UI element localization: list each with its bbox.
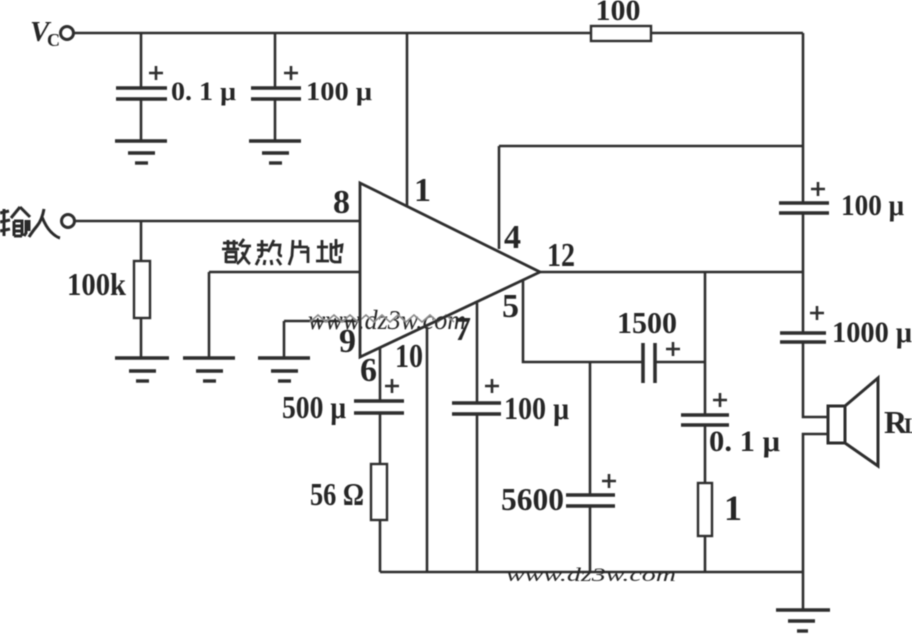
svg-text:1500: 1500 bbox=[617, 305, 677, 340]
capacitor 1500 bbox=[617, 305, 680, 383]
wire pin 10 bbox=[426, 327, 429, 572]
svg-text:5600: 5600 bbox=[501, 481, 564, 517]
wire bottom bus bbox=[380, 571, 803, 574]
resistor 56ohm bbox=[310, 464, 387, 520]
svg-text:L: L bbox=[904, 413, 912, 438]
svg-text:500 μ: 500 μ bbox=[282, 389, 346, 425]
ground (under 0.1u) bbox=[115, 141, 167, 163]
wire output branch drop bbox=[704, 272, 707, 414]
wire pin 9 bbox=[284, 320, 360, 323]
wire pin 6 upper bbox=[379, 348, 382, 402]
watermark www.dz3w.com bbox=[308, 305, 466, 335]
ground (under 100u) bbox=[249, 141, 301, 163]
wire pin 7 upper bbox=[476, 303, 479, 402]
wire 100k to ground bbox=[140, 318, 143, 357]
resistor 1 bbox=[698, 483, 742, 536]
wire pin 7 lower bbox=[476, 414, 479, 572]
svg-text:9: 9 bbox=[339, 323, 356, 360]
wire resistor 1 to bus bbox=[704, 536, 707, 572]
svg-text:0. 1 μ: 0. 1 μ bbox=[171, 77, 236, 106]
ground (pin 9) bbox=[258, 358, 310, 381]
wire 500u to 56ohm bbox=[379, 414, 382, 464]
svg-text:7: 7 bbox=[454, 311, 471, 348]
svg-text:1: 1 bbox=[724, 488, 742, 528]
wire right rail to speaker bbox=[803, 342, 828, 417]
speaker RL bbox=[828, 378, 912, 466]
svg-text:100 μ: 100 μ bbox=[841, 189, 904, 222]
svg-text:100 μ: 100 μ bbox=[306, 77, 372, 106]
wire heatsink ground bbox=[209, 271, 360, 274]
ground (main) bbox=[776, 610, 830, 631]
wire pin 5 bbox=[523, 281, 643, 362]
op-amp U1 (power amp triangle) bbox=[360, 183, 540, 357]
capacitor 100u (bootstrap) bbox=[779, 182, 904, 222]
heatsink ground label (san re pian di) bbox=[222, 239, 342, 265]
wire speaker return bbox=[803, 434, 828, 609]
svg-text:0. 1 μ: 0. 1 μ bbox=[709, 425, 780, 458]
svg-text:100 μ: 100 μ bbox=[504, 390, 569, 426]
capacitor 100u (supply) bbox=[251, 66, 372, 106]
wire cap 0.1u branch top bbox=[140, 33, 143, 87]
svg-text:C: C bbox=[47, 30, 60, 50]
capacitor 100u (pin 7) bbox=[452, 379, 569, 426]
wire 100k branch bbox=[140, 222, 143, 261]
svg-text:12: 12 bbox=[547, 237, 575, 274]
wire right rail mid bbox=[802, 213, 805, 332]
svg-text:1000 μ: 1000 μ bbox=[832, 316, 912, 349]
capacitor 1000u bbox=[780, 306, 912, 349]
svg-text:5: 5 bbox=[502, 288, 519, 325]
svg-text:4: 4 bbox=[504, 219, 521, 256]
wire 0.1u to resistor 1 bbox=[704, 425, 707, 483]
wire 5600 upper bbox=[589, 362, 592, 495]
wire feedback top bbox=[499, 145, 803, 148]
svg-text:10: 10 bbox=[395, 338, 423, 375]
wire top supply bbox=[73, 32, 591, 35]
capacitor 0.1u (output) bbox=[681, 393, 780, 458]
svg-text:6: 6 bbox=[360, 352, 377, 389]
wire output pin 12 bbox=[540, 271, 803, 274]
svg-text:www.dz3w.com: www.dz3w.com bbox=[506, 565, 676, 586]
svg-text:100k: 100k bbox=[67, 266, 126, 302]
svg-text:100: 100 bbox=[596, 0, 641, 27]
capacitor 0.1u bbox=[116, 66, 236, 106]
wire 5600 lower bbox=[589, 506, 592, 572]
svg-text:56 Ω: 56 Ω bbox=[310, 476, 364, 512]
wire cap 0.1u to ground bbox=[140, 99, 143, 140]
wire pin 9 drop bbox=[283, 321, 286, 357]
svg-text:8: 8 bbox=[333, 184, 350, 221]
capacitor 500u bbox=[282, 379, 404, 425]
node Vc label bbox=[30, 16, 60, 50]
capacitor 5600 bbox=[501, 474, 616, 517]
terminal input bbox=[62, 215, 75, 228]
wire input bbox=[74, 220, 360, 223]
ground (under 100k) bbox=[115, 358, 169, 381]
wire pin 4 feedback drop bbox=[498, 146, 501, 249]
wire 1500 to branch bbox=[655, 361, 705, 364]
wire cap 100u to ground bbox=[274, 99, 277, 140]
resistor 100k bbox=[67, 261, 150, 318]
wire resistor 100 to right rail bbox=[651, 32, 803, 35]
wire heatsink ground drop bbox=[208, 272, 211, 357]
wire cap 100u branch top bbox=[274, 33, 277, 87]
wire pin 1 bbox=[406, 33, 409, 206]
ground (heatsink) bbox=[183, 358, 235, 381]
wire 56ohm to bus bbox=[379, 520, 382, 572]
terminal Vc bbox=[61, 27, 74, 40]
svg-text:1: 1 bbox=[414, 172, 431, 209]
node input label (shu ru) bbox=[0, 207, 60, 238]
resistor 100 bbox=[591, 0, 651, 41]
wire right rail top bbox=[802, 33, 805, 202]
